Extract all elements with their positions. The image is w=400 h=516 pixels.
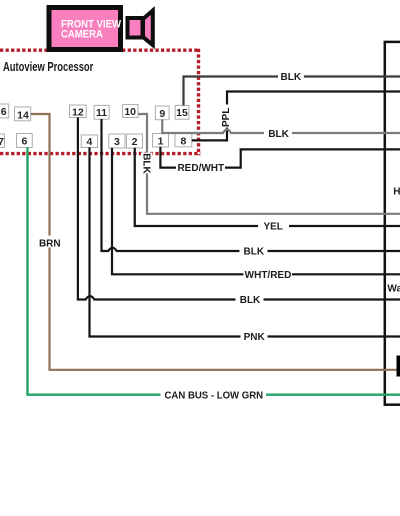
wire BLK from pin 11 with hop over pin-3 wire: [102, 119, 400, 251]
svg-text:7: 7: [0, 136, 4, 148]
svg-text:PPL: PPL: [221, 108, 232, 127]
svg-text:12: 12: [72, 106, 84, 118]
svg-text:10: 10: [124, 106, 136, 118]
wire (gray) from pin 10: right, down, right: [138, 114, 400, 214]
pin 12: [70, 105, 87, 118]
svg-text:WHT/RED: WHT/RED: [245, 270, 292, 281]
pin 2: [127, 134, 143, 148]
pin 1: [153, 134, 169, 148]
svg-text:BLK: BLK: [240, 295, 261, 306]
svg-text:BLK: BLK: [141, 153, 152, 174]
pin 6 (row2): [17, 134, 33, 148]
wire BRN from pin 14: right, down, right to connector: [31, 114, 398, 370]
Autoview Processor dashed enclosure: right edge: [197, 49, 200, 156]
svg-text:8: 8: [180, 136, 186, 148]
wire BLK from pin 15 (dark gray) up then right: [184, 77, 400, 106]
svg-text:BLK: BLK: [244, 247, 265, 258]
label BLK (y76): [278, 71, 304, 82]
svg-text:BLK: BLK: [268, 129, 289, 140]
Autoview Processor dashed enclosure: bottom edge: [0, 152, 200, 155]
label CAN BUS - LOW GRN (y394.4): [161, 389, 267, 401]
camera lens trapezoid: [143, 11, 153, 46]
pin 6 (row1, cut at left): [0, 104, 9, 118]
label BLK (vertical, on gray pin-10 wire): [141, 153, 153, 174]
svg-text:CAMERA: CAMERA: [61, 29, 103, 41]
label PPL (vertical): [221, 105, 232, 128]
pin 14: [15, 107, 31, 121]
svg-text:6: 6: [1, 106, 7, 118]
Autoview Processor dashed enclosure: top edge: [0, 49, 199, 52]
svg-text:BRN: BRN: [39, 238, 61, 249]
svg-text:Autoview Processor: Autoview Processor: [3, 60, 94, 74]
svg-text:PNK: PNK: [244, 332, 266, 343]
label WHT/RED (y274): [244, 269, 293, 280]
svg-text:14: 14: [17, 109, 29, 121]
label BRN (on brown vertical wire): [38, 236, 63, 248]
wire PNK from pin 4: [90, 147, 400, 336]
wire BLK from pin 9 (gray) with hop over PPL vertical: [162, 120, 400, 133]
svg-text:HEA: HEA: [393, 186, 400, 197]
wire RED/WHT from pin 1: down, right, up, right to head unit: [160, 147, 400, 168]
pin 10: [122, 105, 138, 118]
svg-text:1: 1: [158, 136, 164, 148]
svg-text:CAN BUS - LOW GRN: CAN BUS - LOW GRN: [164, 390, 263, 401]
svg-text:11: 11: [96, 107, 107, 119]
svg-text:War: War: [387, 284, 400, 295]
pin 7 (row2, cut at left): [0, 134, 5, 148]
wire BLK from pin 12 with hop over pin-4 wire: [78, 117, 400, 299]
pin 3: [109, 134, 125, 148]
pin 11: [94, 105, 109, 119]
pin 8: [175, 134, 192, 147]
camera body: [49, 8, 121, 50]
svg-text:YEL: YEL: [263, 222, 282, 233]
pin 9: [155, 106, 169, 120]
wire YEL from pin 2: [135, 148, 400, 226]
connector blob at end of BRN wire: [397, 356, 400, 377]
svg-text:2: 2: [132, 136, 138, 148]
svg-text:3: 3: [114, 136, 120, 148]
svg-text:15: 15: [176, 107, 188, 119]
label BLK (y251): [240, 245, 268, 256]
wire WHT/RED from pin 3: [112, 148, 400, 274]
pin 15: [175, 105, 189, 119]
camera lens neck rect: [128, 18, 143, 38]
pin 4: [81, 135, 97, 148]
svg-text:9: 9: [159, 108, 165, 120]
head unit box (right, cut off at canvas edge): [385, 42, 400, 405]
wire PPL from pin 8: right, up, right to head unit: [192, 92, 400, 141]
svg-text:4: 4: [86, 136, 92, 148]
label BLK (y299): [236, 294, 264, 305]
svg-text:BLK: BLK: [281, 72, 302, 83]
label BLK (y133): [264, 127, 292, 138]
wire CAN BUS low (green) from pin 6 row2: [28, 147, 400, 394]
svg-text:6: 6: [21, 136, 27, 148]
label RED/WHT (y167.6): [176, 162, 225, 174]
label YEL (y226): [258, 220, 289, 231]
label PNK (y336.5): [241, 331, 268, 342]
svg-text:RED/WHT: RED/WHT: [177, 163, 224, 174]
